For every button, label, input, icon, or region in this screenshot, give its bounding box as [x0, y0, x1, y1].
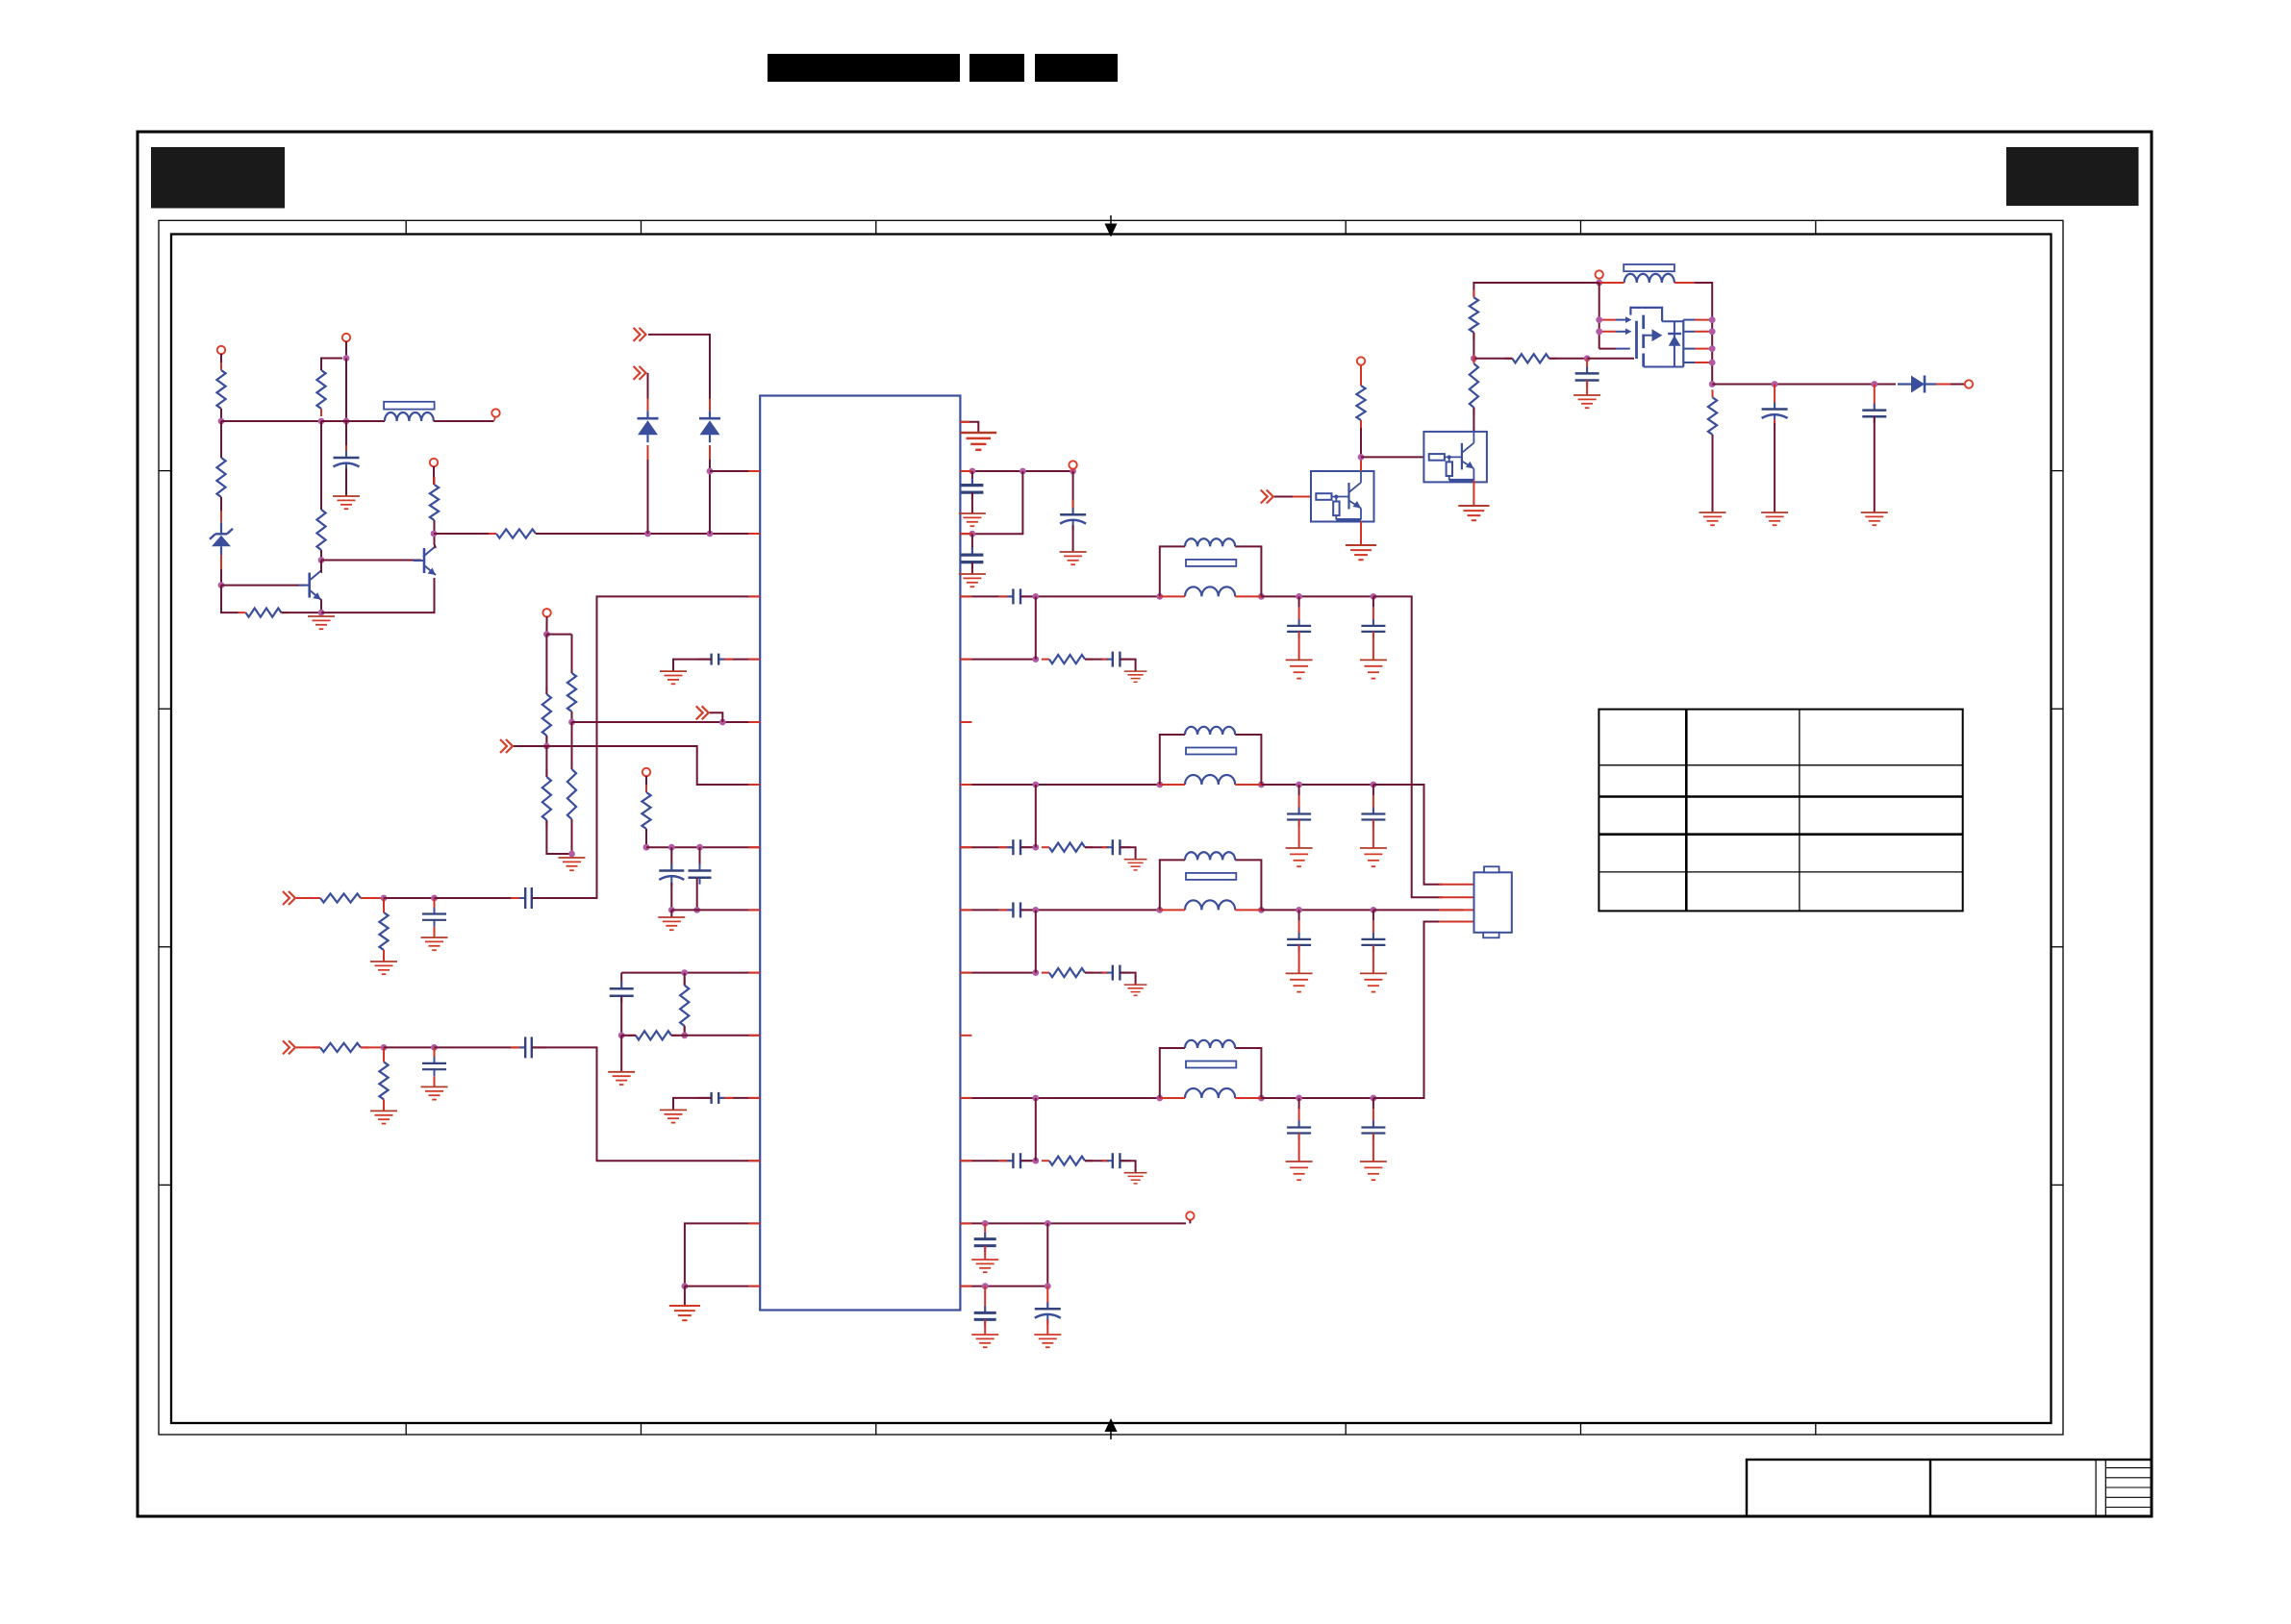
- wire R25 to ground: [1712, 435, 1714, 512]
- wire cap branch OUT4 x1350: [1298, 1098, 1300, 1127]
- junction Q3 pin y362: [1709, 345, 1716, 352]
- wire ch2 node2 to cap: [435, 1046, 525, 1048]
- capacitor C15 OUT3: [1361, 933, 1385, 952]
- wire L1 to R19: [684, 973, 686, 986]
- junction node L1: [681, 969, 688, 976]
- port P1: [217, 346, 225, 355]
- capacitor series OUT3: [998, 902, 1035, 917]
- ground below M1: [608, 1072, 635, 1085]
- wire pin GND stub top-right: [960, 422, 978, 433]
- junction OUT2 c2: [1371, 782, 1377, 788]
- wire pin11 net: [718, 1097, 760, 1099]
- port P9: [1357, 357, 1365, 365]
- wire IC to rc cap OUT4: [960, 1160, 1013, 1162]
- wire IC to cap OUT3: [960, 909, 1013, 911]
- ground pins13-14: [669, 1306, 700, 1320]
- junction OUT1 c2: [1371, 593, 1377, 600]
- wire D1 branch: [647, 445, 649, 534]
- ground below C19: [1761, 512, 1788, 525]
- resistor R8: [542, 687, 551, 743]
- wire cap branch output c2: [1874, 385, 1876, 411]
- ground OUT4 x1427: [1360, 1162, 1387, 1180]
- ground rc OUT2: [1124, 860, 1147, 870]
- wire ch2 to IC: [532, 1047, 760, 1161]
- resistor R11: [567, 762, 576, 827]
- wire P5 stub: [545, 616, 547, 635]
- junction Q3 pin y377: [1709, 360, 1716, 366]
- junction OUT3 a: [1032, 907, 1039, 913]
- junction OUT4 filt-R: [1258, 1095, 1265, 1102]
- wire C8 to ground: [971, 562, 973, 574]
- junction node T2: [1045, 1220, 1051, 1227]
- junction OUT2 c1: [1296, 782, 1302, 788]
- junction OUT1 a: [1032, 593, 1039, 600]
- inductor OUT4: [1185, 1088, 1235, 1098]
- wire F2 to R10: [571, 635, 573, 673]
- wire OUT4 to connector: [1373, 922, 1443, 1099]
- junction ch1 node2: [431, 895, 438, 902]
- junction node N: [682, 1283, 689, 1289]
- capacitor C23 (polarized): [1035, 1302, 1061, 1324]
- wire J2 cap branch: [670, 847, 672, 870]
- wire Q3 drain bus: [1711, 320, 1713, 385]
- junction node S: [1471, 355, 1477, 362]
- wire F1 to R8: [545, 635, 547, 694]
- junction ch2 node2: [431, 1044, 438, 1051]
- wire inductor leads OUT2: [1160, 784, 1262, 786]
- wire inductor leads OUT4: [1160, 1097, 1262, 1099]
- capacitor rc OUT1: [1102, 652, 1131, 667]
- wire node B to Q2 base: [321, 560, 421, 562]
- wire G1 to R9: [545, 746, 547, 777]
- wire IC to rc cap OUT2: [960, 846, 1013, 848]
- wire cap branch OUT3 x1427: [1372, 910, 1374, 938]
- wire Q4 to Q5 box: [1361, 456, 1423, 458]
- wire rc cap to ground OUT2: [1120, 847, 1135, 860]
- wire R21 to node S: [1473, 333, 1474, 359]
- wire ch2 arrow to R: [296, 1046, 320, 1048]
- capacitor rc OUT4: [1102, 1153, 1131, 1168]
- wire filter top branch OUT2: [1160, 735, 1262, 785]
- wire rc r-c OUT3: [1085, 972, 1109, 974]
- connector CN1: [1474, 866, 1512, 937]
- junction OUT1 c1: [1296, 593, 1302, 600]
- wire node C down: [221, 586, 239, 613]
- wire node Q to R21: [1473, 283, 1599, 297]
- port P11: [1186, 1212, 1194, 1220]
- wire R11 to node H: [571, 819, 573, 854]
- junction OUT2 a: [1032, 782, 1039, 788]
- transistor Q2: [414, 546, 436, 575]
- resistor R16 ch2 series: [313, 1043, 368, 1052]
- ground below C7: [959, 513, 986, 526]
- port P8: [1596, 270, 1603, 279]
- resistor R3: [316, 502, 325, 558]
- resistor R23: [1470, 356, 1478, 415]
- wire D4 to port: [1936, 384, 1964, 386]
- resistor R25: [1708, 389, 1717, 442]
- wire C2 to pin8 net: [670, 883, 672, 910]
- junction node P1c: [1070, 468, 1076, 475]
- wire pin14 net left: [685, 1286, 760, 1287]
- wire C7 to ground: [971, 492, 973, 513]
- capacitor C12 OUT2: [1287, 808, 1311, 827]
- wire C18 to ground: [1586, 381, 1588, 396]
- wire C19 to ground: [1774, 420, 1775, 513]
- red stub OUT4 connector: [1439, 921, 1474, 923]
- capacitor C8: [961, 548, 983, 569]
- capacitor series OUT1: [998, 588, 1035, 604]
- wire IC to rc node OUT1: [960, 659, 1035, 661]
- ferrite bead coil OUT1: [1185, 538, 1235, 546]
- wire ch1 cap branch: [434, 898, 436, 908]
- capacitor C20: [1862, 404, 1886, 424]
- ground OUT4 x1350: [1286, 1162, 1313, 1180]
- junction OUT1 filt-L: [1156, 593, 1163, 600]
- ground ch1 shunt: [370, 962, 397, 974]
- wire output rail: [1712, 384, 1896, 386]
- wire R22 to gate node: [1549, 358, 1587, 360]
- ferrite bead coil OUT2: [1185, 727, 1235, 735]
- wire F1 to F2: [546, 634, 571, 636]
- wire M1 to ground: [620, 1036, 622, 1072]
- wire pin11 cap to corner: [673, 1098, 712, 1111]
- resistor R14 ch1 shunt: [379, 905, 388, 958]
- wire cap to ground OUT3 x1427: [1372, 945, 1374, 974]
- wire pin8 net: [671, 909, 760, 911]
- ground below node H: [559, 858, 586, 870]
- wire rc link OUT3: [1035, 910, 1037, 972]
- junction node D: [318, 610, 325, 616]
- junction node J2: [668, 844, 675, 851]
- wire inductor leads OUT3: [1160, 909, 1262, 911]
- red stub OUT2 connector: [1439, 884, 1474, 886]
- junction OUT3 c1: [1296, 907, 1302, 913]
- wire cap to ground OUT2 x1427: [1372, 820, 1374, 849]
- transistor Q3 P-MOSFET: [1599, 283, 1713, 367]
- wire IC to rc node OUT3: [960, 972, 1035, 974]
- wire A4 to C1: [345, 421, 347, 458]
- ground top-right of IC: [960, 433, 996, 450]
- zener diode D3: [210, 522, 233, 555]
- wire J3 cap branch: [699, 847, 701, 870]
- port P7: [1069, 461, 1076, 471]
- wire filter top branch OUT3: [1160, 860, 1262, 910]
- wire pin6 net: [514, 746, 760, 785]
- wire R5 to node D: [281, 612, 321, 613]
- off-page arrow IN1: [634, 328, 646, 341]
- ground rc OUT3: [1124, 985, 1147, 995]
- wire C20 to ground: [1874, 416, 1876, 512]
- wire P2a cap branch: [971, 534, 973, 555]
- wire cap to filter OUT3: [1020, 909, 1160, 911]
- wire pin9 net: [621, 972, 760, 974]
- wire R19 to node M2: [684, 1026, 686, 1036]
- capacitor C13 OUT2: [1361, 808, 1385, 827]
- off-page arrow STBY: [500, 739, 513, 753]
- resistor R4: [216, 450, 225, 505]
- junction node U2: [1045, 1283, 1051, 1289]
- wire rc r-c OUT1: [1085, 659, 1109, 661]
- wire ch2 shunt to ground: [383, 1099, 385, 1111]
- wire R6 to node E: [434, 520, 436, 534]
- wire A4 to L1: [346, 420, 385, 422]
- capacitor series rc OUT2: [998, 839, 1035, 855]
- off-page arrow MUTE: [696, 706, 709, 719]
- junction rc OUT4: [1032, 1158, 1039, 1164]
- ferrite core of L2: [1624, 264, 1674, 271]
- junction rc OUT1: [1032, 656, 1039, 662]
- capacitor series rc OUT4: [998, 1153, 1035, 1168]
- wire R3 to node B: [320, 550, 322, 561]
- junction node J1: [643, 844, 650, 851]
- junction output node: [1709, 381, 1716, 387]
- port P4: [430, 459, 438, 467]
- resistor R22: [1504, 354, 1556, 362]
- junction node P2a: [969, 531, 976, 537]
- ground below C20: [1861, 512, 1888, 525]
- resistor R17 ch2 shunt: [379, 1054, 388, 1107]
- junction node A3: [343, 355, 350, 362]
- ferrite bead coil OUT4: [1185, 1040, 1235, 1048]
- wire cap to ground OUT1 x1350: [1298, 632, 1300, 661]
- junction node B (Q1 collector): [318, 557, 325, 563]
- junction ch2 node1: [381, 1044, 388, 1051]
- wire R20 to M2: [671, 1035, 685, 1037]
- capacitor C7: [961, 479, 983, 499]
- ground below K1: [658, 917, 685, 930]
- wire R12 to pin7: [645, 829, 647, 847]
- wire ch2 node1-node2: [384, 1046, 435, 1048]
- wire cap branch OUT2 x1350: [1298, 785, 1300, 813]
- wire pin7 net: [646, 846, 760, 848]
- redacted header text block 2: [969, 54, 1024, 82]
- wire rc link OUT1: [1035, 596, 1037, 659]
- wire D3 to node C: [220, 555, 222, 586]
- junction output c2: [1871, 381, 1877, 387]
- off-page arrow CTRL: [1261, 490, 1273, 504]
- wire IC to filter OUT4: [960, 1097, 1159, 1099]
- capacitor rc OUT2: [1102, 839, 1131, 855]
- wire S to R22: [1473, 358, 1512, 360]
- capacitor C11 OUT1: [1361, 619, 1385, 638]
- wire node N to ground: [684, 1287, 686, 1306]
- capacitor ch1 shunt: [422, 908, 446, 927]
- capacitor C16 OUT4: [1287, 1121, 1311, 1140]
- ground below C18: [1573, 395, 1600, 408]
- junction node T1: [982, 1220, 989, 1227]
- wire pin13 right net: [960, 1222, 1186, 1224]
- wire node E to R7: [434, 533, 496, 535]
- wire D1 cathode to arrow: [647, 373, 649, 411]
- junction node H: [568, 851, 575, 858]
- junction node F1: [543, 631, 550, 637]
- off-page arrow IN2: [634, 366, 646, 380]
- wire rc cap to ground OUT1: [1120, 660, 1135, 672]
- junction Q3 gate pin a: [1596, 316, 1602, 323]
- wire Q1 emitter to node D: [320, 599, 322, 612]
- junction node A2: [318, 418, 325, 425]
- wire OUT1 to connector: [1373, 596, 1443, 897]
- junction OUT3 filt-R: [1258, 907, 1265, 913]
- wire Q4 collector net: [1360, 420, 1362, 471]
- wire cap branch OUT2 x1427: [1372, 785, 1374, 813]
- wire D2 cathode to arrow: [648, 335, 710, 411]
- wire pin4 cap to corner: [673, 660, 712, 672]
- border zone ticks: [159, 220, 2063, 1435]
- wire rc r-c OUT4: [1085, 1160, 1109, 1162]
- junction OUT4 c1: [1296, 1095, 1302, 1102]
- wire D2 branch: [709, 445, 711, 534]
- wire node C to Q1 base: [221, 585, 306, 587]
- wire R1 to node A: [220, 409, 222, 421]
- junction output c1: [1772, 381, 1778, 387]
- junction gate node: [1584, 355, 1591, 362]
- capacitor ch2 series: [511, 1037, 546, 1058]
- junction node K1: [668, 907, 675, 913]
- wire R4 to D3: [220, 497, 222, 522]
- wire ch1 node1-node2: [384, 897, 435, 899]
- wire M1 to R20: [621, 1035, 636, 1037]
- wire arrow to Q4 box: [1274, 496, 1311, 498]
- capacitor C10 OUT1: [1287, 619, 1311, 638]
- wire IC to filter OUT2: [960, 784, 1159, 786]
- wire Q4 emitter to ground: [1360, 522, 1362, 546]
- digital transistor Q5: [1423, 432, 1487, 483]
- diode D2: [699, 411, 720, 442]
- inductor L1: [385, 412, 434, 421]
- wire rc r-c OUT2: [1085, 846, 1109, 848]
- wire cap branch OUT1 x1427: [1372, 596, 1374, 625]
- junction Q3 pin y344: [1709, 328, 1716, 335]
- wire R8 to node G1: [545, 736, 547, 746]
- wire U2 cap branch: [1046, 1287, 1048, 1310]
- junction D2 to IC pin1: [707, 468, 714, 475]
- capacitor C9 (polarized): [1060, 500, 1086, 530]
- ferrite bead body OUT1: [1186, 560, 1236, 566]
- wire P1 to R1: [220, 354, 222, 370]
- wire K1 to ground: [670, 910, 672, 917]
- port P10: [1965, 380, 1974, 387]
- resistor R6: [430, 477, 439, 528]
- junction OUT4 filt-L: [1156, 1095, 1163, 1102]
- capacitor C22: [974, 1306, 996, 1326]
- ground rc OUT4: [1124, 1173, 1147, 1184]
- resistor R9: [542, 769, 551, 828]
- wire C22 to ground: [984, 1319, 986, 1335]
- ferrite bead body OUT2: [1186, 748, 1236, 755]
- wire C1 to ground: [345, 468, 347, 496]
- wire L2 leads: [1599, 283, 1713, 320]
- junction node M1: [618, 1032, 625, 1038]
- wire ch1 shunt to ground: [383, 950, 385, 962]
- wire cap to ground OUT1 x1427: [1372, 632, 1374, 661]
- inductor OUT3: [1185, 900, 1235, 910]
- junction node P1a: [969, 468, 976, 475]
- resistor R21: [1470, 289, 1478, 340]
- wire cap to ground OUT3 x1350: [1298, 945, 1300, 974]
- wire A2 to R3: [320, 421, 322, 510]
- ground ch2 shunt: [370, 1111, 397, 1123]
- resistor R13 ch1 series: [313, 893, 368, 902]
- wire gate cap branch: [1586, 359, 1588, 374]
- wire rc link OUT4: [1035, 1098, 1037, 1161]
- wire T1 cap branch: [984, 1223, 986, 1238]
- wire arrow to pin5: [710, 712, 723, 722]
- junction OUT3 filt-L: [1156, 907, 1163, 913]
- ground OUT2 x1350: [1286, 848, 1313, 866]
- resistor R7: [489, 529, 543, 537]
- ground OUT3 x1427: [1360, 973, 1387, 991]
- port P6: [642, 768, 650, 777]
- resistor R24: [1356, 378, 1365, 428]
- junction Q3 pin y332: [1709, 316, 1716, 323]
- wire ch1 shunt: [383, 898, 385, 912]
- redacted header text block 3: [1035, 54, 1118, 82]
- wire P6 to R12: [645, 776, 647, 792]
- capacitor pin11 bypass: [697, 1092, 734, 1104]
- junction node M2: [681, 1032, 688, 1038]
- capacitor C18 gate: [1575, 366, 1599, 387]
- wire node A2 to A4: [321, 420, 346, 422]
- capacitor C2 (polarized): [659, 864, 684, 887]
- title block: [1747, 1460, 2152, 1516]
- ferrite bead coil OUT3: [1185, 852, 1235, 860]
- wire P1a cap branch: [971, 471, 973, 486]
- wire cap branch OUT3 x1350: [1298, 910, 1300, 938]
- ground below C22: [971, 1335, 998, 1347]
- wire R9 to node H: [546, 820, 571, 854]
- wire inductor leads OUT1: [1160, 595, 1262, 597]
- ground ch1 cap: [421, 937, 448, 950]
- capacitor ch1 series: [511, 887, 546, 909]
- ground below R25: [1699, 512, 1726, 525]
- resistor rc OUT3: [1042, 968, 1093, 977]
- wire P11 stub: [1189, 1220, 1191, 1223]
- wire R7 to IC pin2: [536, 533, 760, 535]
- resistor R10: [567, 665, 576, 719]
- junction node C: [218, 582, 225, 588]
- wire C9 to ground: [1072, 525, 1074, 552]
- wire OUT2 to connector: [1373, 785, 1443, 885]
- diode D4: [1898, 376, 1936, 393]
- redacted label top-right: [2006, 147, 2139, 206]
- capacitor rc OUT3: [1102, 965, 1131, 981]
- IC U1 main amplifier: [760, 396, 960, 1311]
- revision table: [1599, 710, 1962, 912]
- wire node D to Q2 emitter: [321, 578, 435, 612]
- redacted title label top-left: [151, 147, 285, 209]
- redacted header text block 1: [768, 54, 960, 82]
- wire gate node to Q3 gate: [1587, 358, 1634, 360]
- capacitor C17 OUT4: [1361, 1121, 1385, 1140]
- wire filter out OUT1: [1261, 595, 1373, 597]
- capacitor C3: [689, 864, 712, 885]
- junction node P1b: [1020, 468, 1026, 475]
- red stub OUT1 connector: [1439, 896, 1474, 898]
- junction Q3 gate pin b: [1596, 328, 1602, 335]
- junction node G1: [543, 743, 550, 750]
- wire cap branch output c1: [1774, 385, 1775, 410]
- wire pin5 net: [572, 721, 761, 723]
- outer sheet border: [138, 132, 2152, 1516]
- wire node A1 to node A2: [221, 420, 321, 422]
- ground pin11: [660, 1110, 687, 1122]
- junction node A1: [218, 418, 225, 425]
- wire P2 stub: [345, 341, 347, 359]
- wire R10 to node G2: [571, 712, 573, 722]
- wire ch1 node2 to cap: [435, 897, 525, 899]
